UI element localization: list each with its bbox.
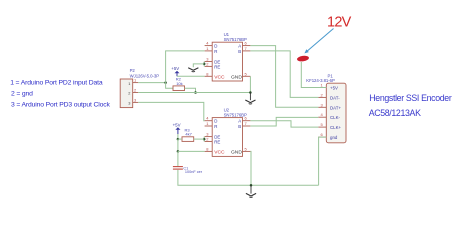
- wire P2 pin3 to U2 D pin: [138, 102, 204, 120]
- svg-text:P2: P2: [130, 68, 136, 73]
- svg-text:R: R: [214, 124, 217, 129]
- wire P1 gnd pin down to rail: [319, 137, 327, 185]
- svg-text:+5V: +5V: [173, 123, 181, 128]
- wire C1 bottom to ground rail: [178, 170, 319, 186]
- P1 pin 5 CLK+: [318, 126, 326, 128]
- junction U1 DE/RE: [203, 63, 206, 66]
- IC U1 SN75176BP: [188, 32, 250, 81]
- P1 pin 3 DAT+: [318, 106, 326, 108]
- U2 pin 1 R: [205, 125, 213, 127]
- P2 pin 2 stub: [133, 92, 139, 94]
- wire U1 GND pin down to gnd net: [249, 76, 251, 92]
- U1 pin 2 RE: [205, 65, 213, 67]
- svg-text:1 = Arduino Port PD2 input Dat: 1 = Arduino Port PD2 input Data: [10, 80, 103, 87]
- U1 DE-RE tie wire: [203, 62, 205, 67]
- +5V supply symbol near U2: [173, 123, 181, 139]
- svg-text:CLK-: CLK-: [330, 115, 341, 120]
- svg-text:GND: GND: [231, 74, 242, 80]
- junction +5V/VCC: [177, 150, 180, 153]
- P2 pin 3 stub: [133, 101, 139, 103]
- svg-text:B: B: [238, 124, 241, 129]
- wire P2 pin1 to node: [138, 82, 165, 84]
- wire gnd net P2 pin2 to U1 GND drop: [138, 92, 250, 94]
- svg-text:B: B: [238, 49, 241, 54]
- svg-text:A: A: [238, 44, 241, 49]
- P1 pin 1 +5V: [318, 87, 326, 89]
- svg-text:RE: RE: [214, 140, 220, 145]
- wire +5V to U1 VCC: [177, 75, 205, 77]
- svg-text:10k: 10k: [176, 81, 182, 86]
- +5V supply symbol near U1: [171, 66, 179, 76]
- resistor R3 4k7: [178, 127, 194, 141]
- svg-text:3: 3: [128, 101, 130, 106]
- U2 pin 2 RE: [205, 141, 213, 143]
- svg-text:3 = Arduino Port PD3 output Cl: 3 = Arduino Port PD3 output Clock: [11, 101, 111, 108]
- svg-text:SN75176BP: SN75176BP: [224, 37, 247, 42]
- svg-text:DAT-: DAT-: [330, 95, 340, 100]
- svg-text:4k7: 4k7: [185, 132, 192, 137]
- U1 pin 8 VCC: [205, 75, 213, 77]
- svg-text:VCC: VCC: [214, 149, 225, 155]
- svg-text:2 = gnd: 2 = gnd: [11, 90, 33, 97]
- svg-text:+5V: +5V: [330, 86, 338, 91]
- wire +5V node down to C1 top: [177, 151, 179, 166]
- wire U1 A to P1 DAT+: [250, 46, 318, 108]
- svg-text:SN75176BP: SN75176BP: [224, 112, 247, 117]
- U1 pin 6 A: [243, 45, 251, 47]
- svg-text:DAT+: DAT+: [330, 105, 341, 110]
- wire U2 B to P1 CLK-: [250, 117, 318, 126]
- svg-text:RE: RE: [214, 64, 220, 69]
- annotation arrow to 12V supply: [304, 29, 333, 54]
- svg-text:D: D: [214, 119, 217, 124]
- resistor R2 10k: [173, 77, 185, 91]
- svg-text:GND: GND: [231, 149, 242, 155]
- wire node to R2 left lead: [166, 83, 173, 89]
- capacitor C1 100nF: [173, 166, 203, 174]
- svg-text:VCC: VCC: [214, 74, 225, 80]
- wire U1 DE/RE to ground: [193, 64, 204, 67]
- junction node data (P2-1 / U1-R / R2): [164, 81, 167, 84]
- ground PE symbol below gnd net: [245, 93, 255, 105]
- P1 pin 6 gnd: [318, 136, 326, 138]
- svg-text:+5V: +5V: [171, 66, 179, 71]
- svg-text:R: R: [214, 49, 217, 54]
- svg-text:D: D: [214, 44, 217, 49]
- wire P1 +5V pin to 12V supply point: [301, 62, 326, 88]
- wire U2 GND pin down to rail: [249, 151, 252, 185]
- svg-text:100nF cer: 100nF cer: [185, 170, 203, 174]
- P2 pin 1 stub: [133, 82, 139, 84]
- U2 pin 4 D: [205, 120, 213, 122]
- U2 pin 7 B: [243, 125, 251, 127]
- U2 pin 3 DE: [205, 136, 213, 138]
- svg-text:CLK+: CLK+: [330, 125, 342, 130]
- U1 pin 3 DE: [205, 61, 213, 63]
- wire U2 A to P1 CLK+: [250, 121, 318, 127]
- svg-text:AC58/1213AK: AC58/1213AK: [369, 108, 421, 118]
- ground PE symbol at U1: [188, 68, 198, 72]
- U2 pin 8 VCC: [205, 150, 213, 152]
- junction +5V/R3: [177, 138, 180, 141]
- junction R2/gnd: [194, 91, 197, 94]
- P1 pin 2 DAT-: [318, 96, 326, 98]
- connector P2: [120, 68, 159, 107]
- junction ground rail: [250, 184, 253, 187]
- U1 pin 4 D: [205, 45, 213, 47]
- U2 pin 5 GND: [243, 150, 251, 152]
- U1 pin 7 B: [243, 50, 251, 52]
- svg-text:A: A: [238, 119, 241, 124]
- connector P1: [306, 74, 346, 143]
- wire node to U1 R pin: [166, 51, 205, 83]
- svg-text:Hengstler SSI Encoder: Hengstler SSI Encoder: [369, 93, 452, 103]
- junction U2 DE/RE: [203, 138, 206, 141]
- wire R3 to U2 DE/RE: [194, 138, 205, 140]
- U2 pin 6 A: [243, 120, 251, 122]
- IC U2 SN75176BP: [203, 107, 250, 156]
- junction gnd net: [249, 91, 252, 94]
- wire +5V down to VCC row: [177, 139, 179, 151]
- svg-text:12V: 12V: [327, 14, 352, 30]
- U1 pin 5 GND: [243, 75, 251, 77]
- wire to U2 VCC: [178, 150, 205, 152]
- wire U1 B to P1 DAT-: [250, 51, 318, 98]
- U1 pin 1 R: [205, 50, 213, 52]
- ground PE symbol at rail: [246, 185, 256, 197]
- svg-text:2: 2: [128, 91, 130, 96]
- wire R2 right lead to gnd net: [185, 88, 196, 92]
- P1 pin 4 CLK-: [318, 116, 326, 118]
- svg-text:1: 1: [128, 81, 130, 86]
- U2 DE-RE tie wire: [203, 137, 205, 142]
- red marker blob hiding +5V symbol (12V supply): [297, 55, 310, 62]
- svg-text:gnd: gnd: [330, 135, 338, 140]
